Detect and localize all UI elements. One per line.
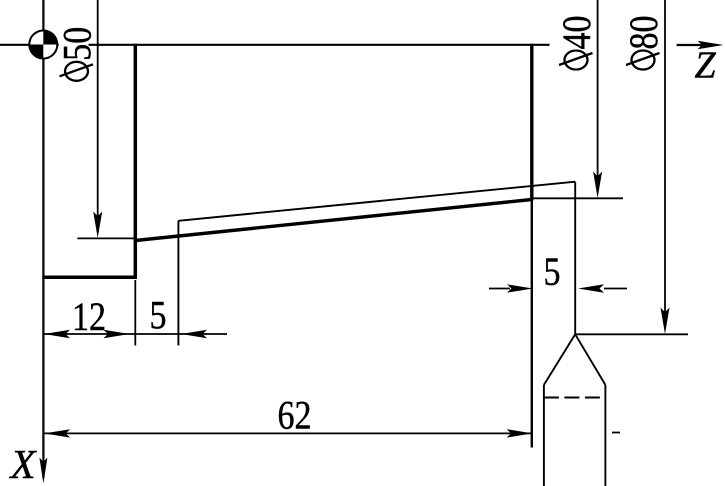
Z axis line (workpiece centerline)	[0, 44, 550, 46]
dimension line 12/5	[43, 330, 227, 338]
extension line below part at x=135	[134, 280, 136, 346]
phi80 dimension line with arrow	[661, 0, 670, 334]
datum (program origin) symbol	[29, 31, 57, 59]
phi40 dimension line with arrow	[593, 0, 602, 198]
taper surface (thick)	[135, 200, 532, 241]
svg-text:5: 5	[544, 251, 561, 295]
dimension 5 (right) right piece	[578, 284, 627, 292]
svg-text:40: 40	[556, 16, 600, 50]
tool right flank	[575, 334, 605, 385]
phi40 landing line	[534, 197, 624, 199]
workpiece left edge (thick)	[134, 44, 138, 277]
phi50 dimension text (rotated)	[56, 27, 100, 81]
tool insert dashed line	[544, 397, 606, 399]
svg-text:Z: Z	[695, 45, 717, 87]
right edge extension line down to 62-dimension	[531, 201, 533, 448]
svg-text:80: 80	[623, 16, 667, 50]
chuck/stock bottom edge (thick)	[42, 275, 137, 279]
thin vertical from taper end down to tool tip	[574, 182, 576, 335]
workpiece right edge (thick)	[530, 44, 533, 201]
dimension 5 (right) left piece	[489, 284, 533, 292]
svg-text:62: 62	[278, 394, 312, 438]
Z axis arrow segment	[677, 41, 724, 49]
thin drop / extension line at x=178	[177, 221, 179, 346]
phi50 dimension line with arrow	[93, 0, 102, 238]
tool left side	[543, 385, 545, 486]
phi80 dimension text (rotated)	[623, 16, 667, 70]
svg-text:12: 12	[72, 296, 106, 340]
phi50 landing line	[77, 237, 135, 239]
X axis line	[39, 0, 47, 484]
finished taper thin line	[178, 182, 575, 221]
tool left flank	[544, 334, 575, 385]
svg-text:X: X	[9, 441, 38, 486]
svg-text:50: 50	[56, 27, 100, 61]
phi40 dimension text (rotated)	[556, 16, 600, 70]
stray dash near tool	[612, 432, 620, 434]
dimension line 62	[44, 429, 533, 437]
phi80 landing line (tool start level)	[576, 333, 688, 335]
svg-text:5: 5	[150, 294, 167, 338]
tool right side	[604, 385, 606, 486]
